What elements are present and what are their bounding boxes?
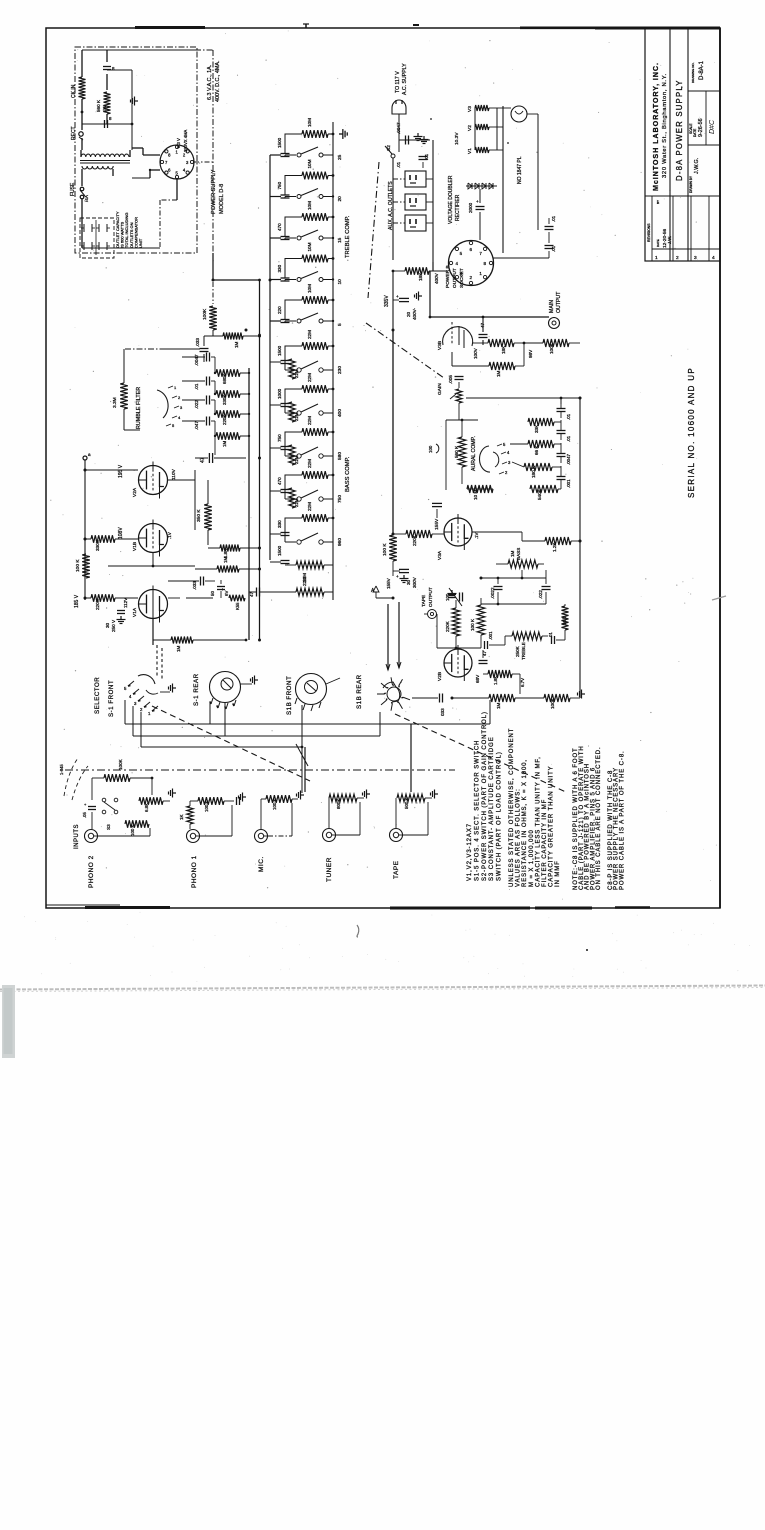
svg-text:.05: .05 [82,812,87,818]
svg-text:OUTPUT: OUTPUT [556,291,562,313]
svg-text:RECT: RECT [71,126,77,140]
svg-text:68V: 68V [475,674,480,683]
svg-text:D-8A-1: D-8A-1 [699,60,705,80]
svg-text:330: 330 [277,264,282,272]
svg-text:1.8K: 1.8K [223,549,228,558]
svg-text:560 K: 560 K [96,99,101,112]
svg-text:300V: 300V [412,576,417,588]
svg-text:18K: 18K [501,345,506,354]
svg-text:335V: 335V [384,295,390,307]
svg-text:330K: 330K [95,539,100,551]
svg-text:20: 20 [406,311,411,317]
svg-text:66 K: 66 K [534,445,539,455]
svg-text:1000: 1000 [277,388,282,399]
svg-text:V1A: V1A [132,607,138,617]
svg-text:TREBLE COMP.: TREBLE COMP. [345,215,351,258]
svg-text:J.W.G.: J.W.G. [694,158,700,174]
svg-text:VOLTAGE DOUBLER: VOLTAGE DOUBLER [448,175,454,224]
svg-text:800K: 800K [336,799,341,809]
svg-text:1M: 1M [496,370,501,377]
svg-text:6.8K: 6.8K [144,803,149,812]
svg-text:1.8K: 1.8K [493,676,498,685]
svg-text:S-1 REAR: S-1 REAR [193,673,200,706]
svg-text:AURAL COMP.: AURAL COMP. [471,436,477,471]
svg-text:BASS: BASS [516,548,521,560]
svg-text:22M: 22M [307,373,312,382]
svg-text:9-26-56: 9-26-56 [698,118,704,137]
svg-text:155V: 155V [434,518,440,530]
svg-text:155V: 155V [386,577,391,589]
svg-text:400V-: 400V- [412,308,417,320]
svg-text:.001: .001 [488,631,493,640]
svg-text:1M: 1M [510,550,515,557]
svg-text:.01: .01 [551,215,556,222]
svg-text:195 V: 195 V [118,464,124,478]
svg-text:15: 15 [337,237,343,243]
svg-text:V2A: V2A [132,487,138,497]
svg-text:TO 117 V: TO 117 V [395,71,401,93]
svg-text:25: 25 [337,154,343,160]
svg-text:330: 330 [277,520,282,528]
svg-text:6.7V: 6.7V [520,678,525,687]
svg-text:220K: 220K [412,534,417,546]
svg-text:18K: 18K [418,272,423,281]
svg-text:1M: 1M [222,441,227,447]
svg-text:RESISTANCE IN OHMS, K = X 1000: RESISTANCE IN OHMS, K = X 1000, [522,759,528,887]
svg-text:100 K: 100 K [204,800,209,812]
svg-text:230: 230 [337,366,343,374]
svg-text:+: + [396,294,399,299]
svg-text:1M: 1M [176,645,181,652]
svg-text:1W: 1W [102,106,107,112]
svg-text:.047: .047 [194,421,199,430]
svg-text:750: 750 [277,434,282,442]
svg-text:390VX 4MA: 390VX 4MA [183,129,188,152]
svg-text:330K: 330K [222,395,227,405]
svg-text:10M: 10M [307,201,312,210]
svg-text:10: 10 [337,279,343,285]
svg-text:100V: 100V [473,347,478,359]
svg-text:680K: 680K [222,374,227,384]
svg-text:IN MMF: IN MMF [555,860,561,887]
svg-text:CK IN: CK IN [71,84,77,98]
svg-text:47: 47 [482,651,487,656]
svg-text:UNLESS STATED OTHERWISE, COMPO: UNLESS STATED OTHERWISE, COMPONENT [509,728,515,887]
svg-text:RECTIFIER: RECTIFIER [455,194,461,221]
svg-text:.022: .022 [538,590,543,599]
svg-text:.033: .033 [195,338,200,347]
svg-text:SOCKET: SOCKET [459,268,465,288]
svg-text:FILTER CAPACITY IN MF: FILTER CAPACITY IN MF [542,799,548,887]
svg-text:SELECTOR: SELECTOR [94,677,101,714]
svg-text:100K: 100K [202,308,208,320]
svg-text:S3: S3 [106,824,111,830]
svg-text:V3B: V3B [437,341,443,350]
svg-text:22M: 22M [294,369,299,378]
svg-text:+: + [396,574,399,579]
svg-text:.01: .01 [194,383,199,390]
svg-text:.001: .001 [566,479,571,488]
svg-text:MODEL D-8: MODEL D-8 [219,184,225,214]
svg-text:DATE: DATE [693,129,697,137]
svg-text:250K: 250K [515,645,520,657]
svg-text:TAPE: TAPE [393,860,400,879]
svg-text:A.C. SUPPLY: A.C. SUPPLY [402,63,408,95]
svg-text:BY: BY [656,200,660,204]
svg-text:30: 30 [105,622,110,628]
svg-text:.01: .01 [566,435,571,442]
svg-text:5: 5 [337,323,343,326]
svg-text:2000: 2000 [468,202,473,213]
svg-text:UNIT: UNIT [138,238,143,248]
svg-text:250 V: 250 V [111,619,116,632]
svg-text:DATE: DATE [656,239,660,247]
svg-text:.01: .01 [548,632,553,638]
svg-text:185 V: 185 V [74,594,80,608]
svg-text:10.3V: 10.3V [454,132,460,145]
svg-text:K55: K55 [235,602,240,610]
svg-text:1500: 1500 [277,137,282,148]
svg-text:1: 1 [655,255,658,261]
svg-text:22M: 22M [307,459,312,468]
svg-text:350 K: 350 K [196,509,202,522]
svg-text:220K: 220K [445,620,450,632]
svg-text:V3: V3 [467,106,473,112]
svg-text:.01: .01 [424,153,429,160]
svg-text:110V: 110V [171,468,177,480]
svg-text:TUNER: TUNER [326,857,333,882]
svg-text:1M: 1M [496,702,501,709]
svg-text:4: 4 [712,255,715,261]
svg-text:2: 2 [676,255,679,261]
svg-text:REVISIONS: REVISIONS [647,223,651,242]
svg-text:22M: 22M [294,412,299,421]
svg-text:960: 960 [337,538,343,546]
svg-text:100K: 100K [550,697,555,709]
svg-text:10M: 10M [307,242,312,251]
svg-text:112V: 112V [123,598,128,608]
svg-text:3.3M: 3.3M [112,397,118,408]
svg-text:OUTPUT: OUTPUT [452,268,458,288]
svg-text:033: 033 [440,708,445,716]
svg-text:S1B FRONT: S1B FRONT [286,676,293,715]
svg-text:CAPACITY LESS THAN UNITY IN MF: CAPACITY LESS THAN UNITY IN MF, [535,756,541,887]
svg-text:10 M: 10 M [473,490,478,500]
svg-text:BASS COMP.: BASS COMP. [345,456,351,492]
svg-text:470: 470 [277,223,282,231]
svg-text:100 K: 100 K [272,798,277,810]
svg-text:V2: V2 [467,125,473,131]
svg-text:20: 20 [337,196,343,202]
svg-text:400V: 400V [434,272,439,284]
svg-text:3: 3 [694,255,697,261]
svg-text:MAIN: MAIN [549,300,555,313]
svg-text:22M: 22M [307,502,312,511]
svg-text:.005: .005 [448,375,453,384]
svg-text:100 K: 100 K [75,559,81,572]
svg-text:V3A: V3A [437,550,443,560]
svg-text:1500: 1500 [277,345,282,356]
svg-text:J.W.: J.W. [667,236,672,244]
svg-text:.0047: .0047 [566,453,571,465]
svg-text:10M: 10M [307,118,312,127]
svg-text:PHONO 2: PHONO 2 [88,855,95,888]
svg-text:MIC.: MIC. [258,856,265,872]
svg-text:220: 220 [277,306,282,314]
svg-text:POWER B: POWER B [445,265,451,288]
svg-text:.01: .01 [396,161,401,168]
svg-text:.033: .033 [192,581,197,590]
svg-text:320 Water St., Binghamton, N.Y: 320 Water St., Binghamton, N.Y. [662,73,668,178]
svg-text:NO 1847 PL: NO 1847 PL [517,156,523,184]
svg-text:22M: 22M [294,455,299,464]
svg-text:S1B REAR: S1B REAR [356,674,363,709]
svg-text:98V: 98V [528,349,533,358]
svg-text:100 K: 100 K [470,618,475,631]
svg-text:+: + [476,199,479,204]
svg-text:10M: 10M [307,159,312,168]
svg-text:50: 50 [210,591,215,596]
svg-text:1M: 1M [223,557,228,563]
svg-text:22M: 22M [307,416,312,425]
svg-text:.0047: .0047 [194,354,199,366]
svg-text:SERIAL NO. 10600 AND UP: SERIAL NO. 10600 AND UP [687,367,696,498]
svg-text:400V. D.C., 4MA.: 400V. D.C., 4MA. [215,61,221,102]
svg-text:180 K: 180 K [531,465,536,478]
svg-text:22M: 22M [302,577,307,586]
svg-text:100K: 100K [549,342,554,354]
svg-text:1M: 1M [234,341,239,348]
svg-text:100: 100 [428,445,433,453]
svg-text:1.2K: 1.2K [552,542,557,552]
svg-text:DRAWING NO.: DRAWING NO. [691,62,695,83]
svg-text:1-845: 1-845 [59,764,64,775]
svg-text:470: 470 [277,477,282,485]
svg-text:DRAWN BY: DRAWN BY [689,175,693,193]
svg-text:750: 750 [337,495,343,503]
svg-text:TAPE: TAPE [421,595,427,607]
svg-text:McINTOSH LABORATORY, INC.: McINTOSH LABORATORY, INC. [651,62,660,191]
svg-text:580: 580 [337,452,343,460]
svg-text:1K: 1K [179,813,184,820]
svg-text:1500: 1500 [277,545,282,556]
svg-text:100 K: 100 K [130,824,135,836]
svg-text:.01: .01 [566,413,571,420]
svg-text:D-8A POWER SUPPLY: D-8A POWER SUPPLY [675,79,684,181]
svg-text:100 K: 100 K [382,543,388,556]
svg-text:S1-5 POS. 4 SECT. SELECTOR SWI: S1-5 POS. 4 SECT. SELECTOR SWITCH [474,740,480,881]
svg-text:108V: 108V [118,527,124,539]
svg-text:ON THIS CABLE ARE NOT CONNECTE: ON THIS CABLE ARE NOT CONNECTED. [596,746,602,890]
svg-text:6V: 6V [224,591,229,596]
svg-text:220K: 220K [95,598,100,610]
svg-text:V2B: V2B [437,672,443,681]
svg-text:FUSE: FUSE [70,182,76,196]
svg-text:22M: 22M [294,498,299,507]
svg-text:POWER CABLE IS A PART OF THE C: POWER CABLE IS A PART OF THE C-8. [619,750,625,890]
svg-text:V1: V1 [467,148,473,154]
svg-text:VALUES ARE AS FOLLOWS:: VALUES ARE AS FOLLOWS: [516,788,522,887]
svg-text:.0047: .0047 [396,122,401,134]
svg-text:.1V: .1V [474,533,479,539]
svg-text:RUMBLE FILTER: RUMBLE FILTER [136,387,142,429]
svg-text:100K: 100K [118,758,123,770]
svg-text:540K: 540K [537,488,542,500]
svg-text:10M: 10M [307,284,312,293]
svg-text:CAPACITY GREATER THAN UNITY: CAPACITY GREATER THAN UNITY [549,765,555,887]
svg-text:22M: 22M [307,330,312,339]
svg-text:500 K: 500 K [404,797,409,809]
svg-text:POWER SUPPLY: POWER SUPPLY [211,169,217,214]
svg-text:M = X 1,000,000: M = X 1,000,000 [529,829,535,887]
svg-text:S2-POWER SWITCH (PART OF GAIN: S2-POWER SWITCH (PART OF GAIN CONTROL) [482,711,488,881]
svg-text:INPUTS: INPUTS [74,824,80,849]
svg-text:6.3 V.A.C., 1A.: 6.3 V.A.C., 1A. [207,65,213,100]
svg-text:750: 750 [277,181,282,189]
svg-text:.1V: .1V [167,532,172,539]
svg-text:6.3 V: 6.3 V [176,138,181,148]
svg-text:S3 CONSTANT- AMPLITUDE CARTRID: S3 CONSTANT- AMPLITUDE CARTRIDGE [489,736,495,881]
svg-text:SWITCH (PART OF LOAD CONTROL): SWITCH (PART OF LOAD CONTROL) [497,751,503,881]
svg-text:400: 400 [337,409,343,417]
svg-text:GAIN: GAIN [437,383,443,395]
svg-text:.022: .022 [194,400,199,409]
svg-text:PHONO 1: PHONO 1 [191,855,198,888]
svg-text:220K: 220K [222,415,227,425]
svg-text:S-1 FRONT: S-1 FRONT [108,680,115,717]
svg-text:V1B: V1B [132,542,138,551]
svg-text:V1,V2,V3-12AX7: V1,V2,V3-12AX7 [467,823,473,881]
svg-text:33K: 33K [534,424,539,433]
svg-text:TREBLE: TREBLE [521,642,526,660]
svg-text:OUTPUT: OUTPUT [428,587,434,607]
svg-text:D#C: D#C [709,119,716,134]
